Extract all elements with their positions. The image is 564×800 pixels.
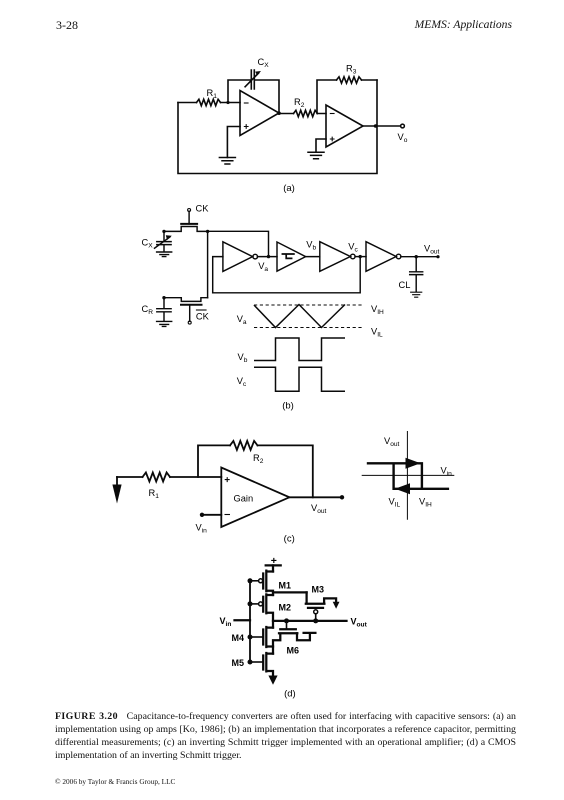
- svg-text:Vo: Vo: [398, 132, 408, 144]
- svg-text:(d): (d): [284, 689, 296, 700]
- svg-text:CR: CR: [142, 304, 154, 316]
- svg-text:Va: Va: [258, 261, 268, 273]
- svg-text:(a): (a): [283, 183, 295, 194]
- svg-text:M3: M3: [312, 585, 325, 595]
- svg-text:Vin: Vin: [196, 523, 208, 535]
- svg-text:Vin: Vin: [220, 616, 232, 628]
- svg-text:VIH: VIH: [419, 497, 432, 509]
- svg-text:Vout: Vout: [424, 244, 440, 256]
- svg-text:CK: CK: [196, 204, 210, 214]
- svg-text:R3: R3: [346, 64, 357, 76]
- svg-text:CK: CK: [196, 312, 210, 322]
- svg-text:Vc: Vc: [348, 242, 358, 254]
- svg-text:Vb: Vb: [306, 240, 316, 252]
- svg-text:CX: CX: [142, 238, 154, 250]
- svg-text:(c): (c): [284, 534, 295, 545]
- svg-text:VIL: VIL: [371, 327, 383, 339]
- svg-text:M4: M4: [232, 633, 245, 643]
- svg-text:Vc: Vc: [237, 376, 247, 388]
- svg-text:CX: CX: [258, 57, 270, 69]
- svg-text:VIL: VIL: [389, 497, 401, 509]
- svg-text:Vb: Vb: [238, 352, 248, 364]
- svg-text:M5: M5: [232, 658, 245, 668]
- svg-text:Gain: Gain: [234, 494, 254, 504]
- svg-text:Vout: Vout: [351, 617, 368, 629]
- svg-text:+: +: [271, 555, 277, 567]
- svg-text:(b): (b): [282, 401, 294, 412]
- svg-text:M6: M6: [287, 646, 300, 656]
- svg-text:R2: R2: [253, 453, 264, 465]
- svg-text:M1: M1: [279, 581, 292, 591]
- svg-text:CL: CL: [399, 280, 411, 290]
- svg-text:Vout: Vout: [384, 436, 400, 448]
- svg-text:Vout: Vout: [311, 503, 327, 515]
- svg-text:VIH: VIH: [371, 304, 384, 316]
- svg-text:R1: R1: [149, 488, 160, 500]
- svg-text:Va: Va: [237, 314, 247, 326]
- svg-text:R2: R2: [294, 97, 305, 109]
- svg-text:M2: M2: [279, 603, 292, 613]
